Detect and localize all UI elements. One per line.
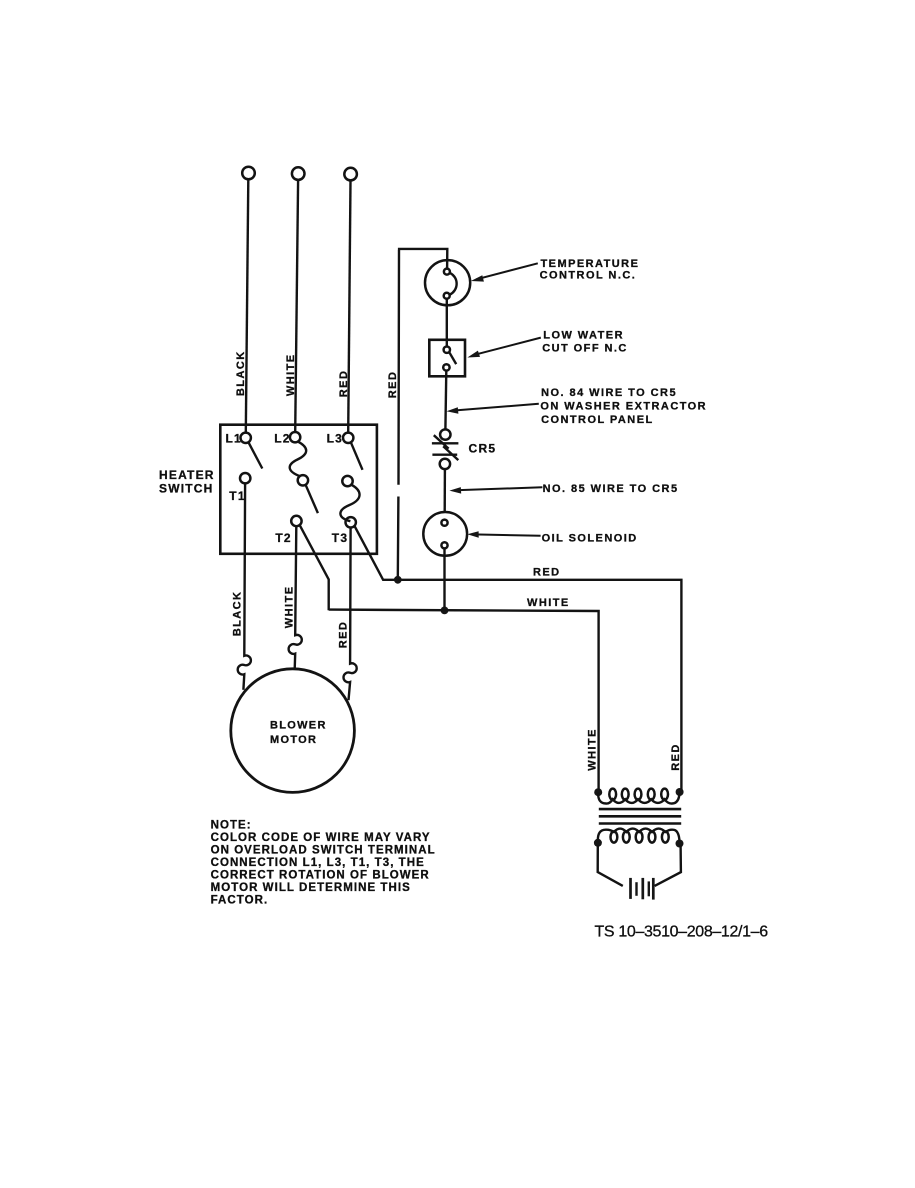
battery BT1 — [629, 878, 632, 899]
svg-text:OIL SOLENOID: OIL SOLENOID — [542, 533, 638, 545]
svg-text:WHITE: WHITE — [587, 728, 599, 771]
relay contact CR5 — [440, 429, 450, 439]
transformer primary winding — [609, 789, 616, 800]
svg-text:TS 10–3510–208–12/1–6: TS 10–3510–208–12/1–6 — [595, 924, 769, 941]
wire secondary left lead — [598, 845, 623, 886]
switch blade L1 — [249, 443, 263, 469]
transformer T1 primary node right — [676, 788, 684, 796]
svg-text:WHITE: WHITE — [527, 597, 570, 609]
temperature control N.C. switch — [425, 260, 470, 305]
switch blade mid — [306, 485, 318, 513]
oil solenoid — [423, 512, 467, 556]
transformer core — [599, 808, 681, 811]
svg-text:CUT OFF N.C: CUT OFF N.C — [542, 343, 628, 355]
junction RED node — [394, 576, 402, 584]
svg-text:BLACK: BLACK — [235, 350, 247, 396]
terminal L1 — [241, 433, 251, 443]
terminal T3 — [346, 517, 356, 527]
svg-text:CONNECTION L1, L3, T1, T3, THE: CONNECTION L1, L3, T1, T3, THE — [211, 857, 425, 869]
blower motor M1 — [231, 669, 355, 793]
svg-text:FACTOR.: FACTOR. — [211, 894, 269, 906]
svg-text:HEATER: HEATER — [159, 468, 215, 482]
terminal mid (under L2) — [298, 475, 308, 485]
svg-text:RED: RED — [387, 371, 399, 399]
wire RED vertical riser — [398, 250, 399, 580]
low water cut off N.C. box — [429, 340, 465, 377]
leader to temperature control — [477, 263, 538, 279]
transformer secondary node right — [676, 840, 684, 848]
transformer T1 primary node left — [594, 788, 602, 796]
wire WHITE bus horizontal and riser — [329, 610, 599, 792]
wire T3 to RED junction — [354, 526, 398, 580]
terminal input 1 — [242, 167, 255, 180]
svg-text:L2: L2 — [274, 431, 290, 445]
junction WHITE node — [441, 607, 449, 615]
terminal T1 — [240, 473, 250, 483]
svg-text:RED: RED — [338, 621, 350, 649]
wire RED bus horizontal and right riser — [398, 580, 682, 792]
leader NO. 84 wire — [453, 404, 539, 411]
terminal input 3 — [344, 168, 357, 181]
wire low water cutoff to CR5 — [444, 371, 447, 430]
transformer secondary winding — [611, 831, 618, 842]
wire T3 to blower motor (RED) with strain loop — [344, 528, 357, 701]
switch blade L3 — [351, 443, 363, 470]
transformer secondary node left — [594, 839, 602, 847]
svg-text:T3: T3 — [332, 531, 348, 545]
svg-text:SWITCH: SWITCH — [159, 481, 214, 495]
svg-text:T1: T1 — [229, 489, 245, 503]
terminal T2 — [291, 516, 301, 526]
svg-text:TEMPERATURE: TEMPERATURE — [541, 258, 640, 270]
overload heater T3 (wavy) — [340, 485, 359, 521]
overload heater L2 (wavy) — [290, 442, 306, 477]
svg-text:NOTE:: NOTE: — [211, 820, 252, 832]
wire CR5 to oil solenoid — [444, 469, 447, 512]
wire WHITE input to L2 — [295, 180, 298, 432]
svg-text:RED: RED — [533, 567, 561, 579]
wire secondary right lead — [655, 846, 681, 886]
wire temperature control to low water cutoff — [446, 299, 448, 347]
svg-text:RED: RED — [338, 370, 350, 398]
svg-text:BLACK: BLACK — [231, 591, 243, 637]
svg-text:LOW WATER: LOW WATER — [543, 330, 624, 342]
terminal L2 — [290, 432, 300, 442]
leader NO. 85 wire — [456, 487, 543, 490]
svg-text:ON OVERLOAD SWITCH TERMINAL: ON OVERLOAD SWITCH TERMINAL — [211, 845, 436, 857]
svg-text:BLOWER: BLOWER — [270, 719, 327, 731]
wire RED input to L3 — [348, 181, 350, 433]
wire oil solenoid to WHITE bus — [443, 548, 445, 610]
svg-text:CONTROL PANEL: CONTROL PANEL — [541, 414, 654, 426]
leader to oil solenoid — [473, 534, 541, 535]
svg-text:CONTROL N.C.: CONTROL N.C. — [540, 269, 637, 281]
svg-text:CORRECT ROTATION OF BLOWER: CORRECT ROTATION OF BLOWER — [211, 869, 430, 881]
svg-text:MOTOR WILL DETERMINE THIS: MOTOR WILL DETERMINE THIS — [211, 882, 411, 894]
wire top horizontal to temperature control — [398, 249, 447, 269]
terminal right (under L3) — [342, 476, 352, 486]
svg-text:T2: T2 — [275, 531, 291, 545]
svg-text:MOTOR: MOTOR — [270, 734, 317, 746]
svg-text:WHITE: WHITE — [285, 353, 297, 396]
terminal L3 — [343, 433, 353, 443]
svg-text:L3: L3 — [327, 431, 343, 445]
svg-text:NO. 84 WIRE TO CR5: NO. 84 WIRE TO CR5 — [541, 387, 677, 399]
leader to low water cutoff — [473, 338, 541, 356]
svg-text:RED: RED — [670, 743, 682, 771]
svg-text:ON WASHER EXTRACTOR: ON WASHER EXTRACTOR — [540, 401, 707, 413]
wire T2 to blower motor (WHITE) with strain loop — [289, 526, 302, 669]
wire T2 to WHITE bus — [300, 525, 329, 610]
wire BLACK input to L1 — [246, 179, 249, 432]
svg-text:NO. 85 WIRE TO CR5: NO. 85 WIRE TO CR5 — [543, 483, 679, 495]
wire T1 to blower motor (BLACK) with strain loop — [238, 483, 251, 689]
terminal input 2 — [292, 167, 305, 180]
heater switch box S1 — [220, 425, 377, 554]
svg-text:CR5: CR5 — [469, 442, 497, 456]
svg-text:COLOR CODE OF WIRE MAY VARY: COLOR CODE OF WIRE MAY VARY — [211, 832, 431, 844]
svg-text:WHITE: WHITE — [284, 585, 296, 628]
